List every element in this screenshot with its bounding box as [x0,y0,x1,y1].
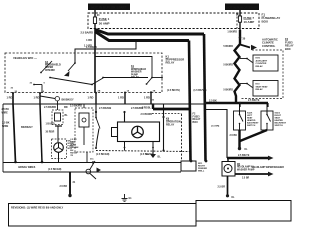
svg-text:RELAY: RELAY [166,61,175,65]
wire: ground drop G1 [60,172,76,197]
wire: pump feed (thick) [227,154,274,160]
svg-text:HOT IN RUN OR START: HOT IN RUN OR START [226,6,257,10]
label (1.5 BK/GN) [96,153,153,156]
label S32/1 [247,113,259,128]
node W splice [40,96,74,101]
switch panel ladder terminals [12,91,152,94]
svg-text:(1.5 BK/GN): (1.5 BK/GN) [96,153,109,156]
svg-text:1.5 RD/W: 1.5 RD/W [86,46,97,49]
splice node A [86,161,101,179]
svg-text:(1.5 BR): (1.5 BR) [211,126,220,128]
relay K9/1 [223,55,278,71]
label F2 FUSE/RELAY BOX (column) [193,113,201,124]
svg-text:BOX: BOX [193,121,199,124]
svg-text:1 RD: 1 RD [144,96,150,100]
wire: pump feed drop from bus A [204,110,227,159]
wire: dashed boundary segment [181,114,183,160]
svg-text:1 RD: 1 RD [7,96,13,100]
wire: fuse1 down to switch panel [94,30,96,93]
svg-text:SEAT HEAT: SEAT HEAT [256,85,269,88]
svg-text:30 AMP: 30 AMP [99,21,110,25]
relay compartment (dashed, open left) [240,50,283,99]
ground G1 symbol [122,194,133,202]
svg-text:2.5 BK: 2.5 BK [230,134,238,137]
label 2.5 BK/RD at fan-out [80,31,93,48]
label FUSE 7 / 10 AMP [244,16,255,24]
svg-text:2.5 BR: 2.5 BR [218,186,226,189]
wire: left edge vertical [2,104,4,172]
revision box [9,204,197,227]
svg-text:BK/BK/GY: BK/BK/GY [21,126,33,129]
svg-text:2 RD/BL: 2 RD/BL [142,107,152,110]
zig-zag power wire from fuse 7 [223,30,245,103]
svg-text:5 BK/RD: 5 BK/RD [223,45,233,48]
wire: ladder stubs to lower rail [13,92,151,104]
label K9 OPERATION RELAY [166,118,181,127]
label K1 SUPPRESSOR RELAY [166,55,185,65]
svg-text:AUXILIARY: AUXILIARY [256,59,268,62]
svg-text:2.5 BK/RD: 2.5 BK/RD [70,105,82,108]
node rail (long horizontal) [3,103,206,105]
label K4 WINDSHIELD WIPER INTERM RELAY [45,61,61,72]
svg-text:2.5 BK/RD: 2.5 BK/RD [141,113,153,116]
svg-text:BL: BL [65,114,69,117]
ground rail 1 [3,162,181,164]
svg-text:5 BK/RD: 5 BK/RD [223,64,233,67]
washer pump motor (dashed circle unit) [46,124,75,163]
wire: mid vertical bus from bus B [189,41,191,162]
label W11 [198,163,207,173]
svg-text:2.5 BK/YE: 2.5 BK/YE [238,154,250,157]
svg-text:1 RD: 1 RD [86,38,92,42]
svg-text:COUNTER: COUNTER [256,63,267,65]
relay contact K4 [40,61,52,78]
power bar HOT IN RUN OR START (right header) [225,4,259,11]
fuse F1/1 [93,10,100,30]
switch S32/2 [261,103,273,130]
pump M4 [222,158,235,176]
wire: upper relay feed [95,57,153,85]
svg-text:VEHICLES W/O —: VEHICLES W/O — [13,56,37,60]
wire: fuse1 feed bus B (thick) [95,32,189,41]
label F1 FUSE/RELAY BOX [262,13,281,24]
branch arrow to A/C control [240,38,278,51]
svg-text:BOX: BOX [262,20,269,24]
svg-text:RD/GN: RD/GN [70,153,77,155]
suppressor relay contact [152,77,163,79]
svg-text:(1.5 BK/GN): (1.5 BK/GN) [48,168,61,171]
svg-text:(1.5 BK/YE): (1.5 BK/YE) [167,89,180,92]
svg-text:2.5 BA/RD: 2.5 BA/RD [80,31,93,35]
wiper relay box (large dashed) [5,53,162,93]
svg-text:WELL: WELL [198,170,205,172]
svg-text:1 RD: 1 RD [34,96,40,100]
svg-text:10 AMP: 10 AMP [244,20,255,24]
label F2 FUSE RELAY BOX right [285,37,294,51]
svg-text:2B: 2B [98,91,101,93]
svg-text:HOT IN RUN OR START: HOT IN RUN OR START [91,6,127,10]
wire: dashed return run [95,147,191,152]
svg-text:CONTROL: CONTROL [262,44,276,48]
relay K10 [223,81,278,97]
bus labels (1.5 BK/YE) [167,89,207,92]
wire: left drop 40 [40,104,43,163]
labels below rail [44,100,217,110]
label M4 HEADLAMP WIPER/WASHER PUMP [237,163,284,172]
motor return pins [124,142,154,151]
svg-text:1 RD: 1 RD [118,96,124,100]
svg-text:RELAY: RELAY [256,88,264,91]
relay coil stub [11,83,46,94]
svg-text:SWITCH: SWITCH [275,125,284,127]
svg-text:RD: RD [64,106,68,109]
labels above ground rail [18,159,94,172]
svg-text:INTERM: INTERM [45,69,55,72]
switch module (dashed) [75,104,93,163]
svg-text:(1.5 BK/YE): (1.5 BK/YE) [194,89,207,92]
wire color legend column [70,139,79,157]
fuse/relay box F1 (dashed) [88,13,259,29]
wire: merged seat switch return [230,130,267,151]
blower switch contact [95,104,100,148]
label 2 RD/BL [141,107,153,116]
svg-text:2.5 BK/RD: 2.5 BK/RD [44,106,56,109]
svg-text:30 RD/R: 30 RD/R [46,132,55,134]
svg-text:BU: BU [70,150,74,152]
label VEHICLES W/O [13,56,37,60]
svg-text:BL: BL [158,156,162,159]
label FUSE 1 / 30 AMP [99,17,110,25]
svg-text:MTR: MTR [68,148,73,150]
svg-text:BK/BK/GY: BK/BK/GY [62,98,75,101]
ground rail 2 [3,171,181,173]
svg-text:2.5 BK: 2.5 BK [70,139,77,141]
svg-text:K9/1: K9/1 [256,58,261,60]
label mid relay block [131,65,146,79]
svg-text:2.5 BR: 2.5 BR [60,185,68,188]
wire: right vertical bus from bus A [204,34,206,161]
wire labels 1 RD row [7,96,151,100]
svg-text:RELAY: RELAY [166,124,175,127]
wire: seat switch feed (thick) [204,99,268,107]
wire: relay return drop [162,104,164,152]
wire: tap from bus B down into relay box [64,41,136,77]
power bar HOT AT ALL TIMES (left header) [88,4,130,11]
wire: pump ground [218,176,236,199]
svg-text:1 BK/RD: 1 BK/RD [227,31,237,34]
svg-text:WIRE: WIRE [2,111,9,114]
wire: fuse1 feed bus A (thick) to right bus [95,30,204,35]
svg-text:1 BU/RD: 1 BU/RD [46,124,56,126]
svg-text:1 RD: 1 RD [88,96,94,100]
svg-text:2.5 BK/YE: 2.5 BK/YE [248,99,260,102]
wire: run to middle contact [50,77,148,86]
dashed module boundary [152,113,182,115]
svg-text:2B: 2B [153,90,156,92]
svg-text:AIRBAG WIRES: AIRBAG WIRES [18,166,36,169]
wire: washer branch arrow [235,172,274,180]
svg-text:SWITCH: SWITCH [247,125,256,127]
svg-text:5 BK/RD: 5 BK/RD [223,89,233,92]
resistor pack (dashed) [52,101,68,125]
switch S32/1 [234,103,246,130]
connector block W11 [181,160,207,171]
svg-text:BOX: BOX [285,47,291,51]
node dots on rail [95,111,126,113]
blower motor M3 [112,112,160,142]
ground G at motor [146,151,162,159]
svg-text:HEADLAMP WIPER/WASHER: HEADLAMP WIPER/WASHER [252,166,284,169]
left margin labels [2,108,34,129]
wire: left drop 13 [13,104,17,163]
label S32/2 [275,113,287,128]
svg-text:RELAY: RELAY [256,65,264,68]
svg-text:REVISIONS: (1) WIRE RE ID 8/9: REVISIONS: (1) WIRE RE ID 8/9 AND ONLY [11,206,64,210]
svg-text:2.5 BK/GN: 2.5 BK/GN [99,107,111,110]
fuse F1/7 [236,10,242,30]
svg-text:2.5 BR: 2.5 BR [242,178,249,180]
wire: thick blower feed [152,103,190,109]
legend box right [196,201,291,222]
terminal ticks [15,89,156,93]
